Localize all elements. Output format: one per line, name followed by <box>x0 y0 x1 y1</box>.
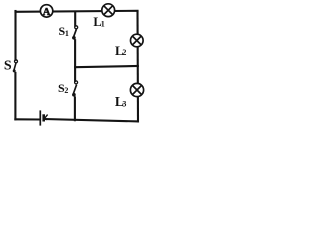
svg-text:A: A <box>43 7 51 18</box>
svg-text:3: 3 <box>122 100 126 109</box>
svg-text:2: 2 <box>64 86 68 95</box>
svg-text:S: S <box>4 59 12 74</box>
svg-text:2: 2 <box>122 48 126 57</box>
svg-text:1: 1 <box>101 19 105 28</box>
svg-text:1: 1 <box>65 29 69 38</box>
